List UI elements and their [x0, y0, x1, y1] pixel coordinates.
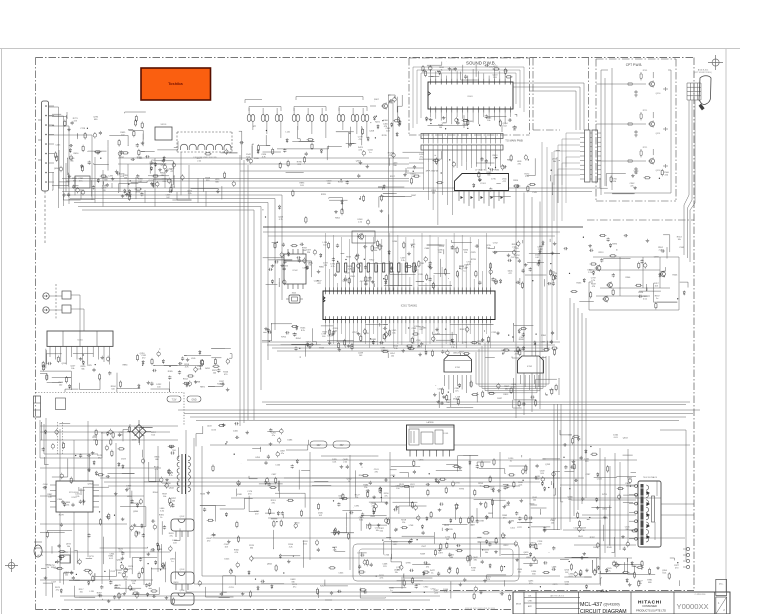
svg-text:IC201: IC201 [455, 367, 461, 369]
FBT area parts [560, 430, 639, 577]
svg-text:MODI: MODI [516, 604, 522, 606]
svg-text:CPT P.W.B.: CPT P.W.B. [626, 63, 643, 67]
shield box with transistor [352, 231, 375, 243]
flyback terminals [635, 485, 638, 488]
svg-text:47u: 47u [389, 155, 392, 157]
svg-text:CONSUMER: CONSUMER [642, 605, 657, 608]
svg-text:3.3k: 3.3k [116, 587, 120, 589]
bus bundle right turns [516, 188, 540, 418]
svg-text:7.5V: 7.5V [172, 400, 177, 402]
delay line coils [181, 144, 232, 150]
sheet box upper [716, 579, 727, 595]
svg-text:IC601: IC601 [467, 96, 473, 98]
svg-text:8.2k: 8.2k [246, 157, 250, 159]
tuner aux parts [370, 95, 402, 129]
svg-text:IC301: IC301 [480, 183, 486, 185]
vertical bus mid-right [542, 142, 557, 352]
svg-text:47u: 47u [420, 157, 423, 159]
regulator Q904 [171, 593, 194, 605]
svg-text:Toshiba: Toshiba [168, 81, 183, 86]
svg-text:15k: 15k [402, 522, 405, 524]
tuner long verticals [49, 107, 93, 208]
orange redaction box [141, 68, 211, 100]
svg-text:2.2k: 2.2k [444, 591, 448, 593]
below main IC parts [262, 323, 558, 358]
svg-text:47u: 47u [607, 570, 610, 572]
dotted section divider [36, 392, 185, 394]
svg-text:15k: 15k [395, 572, 398, 574]
mid band parts above main IC [263, 239, 560, 289]
svg-text:4.7k: 4.7k [380, 577, 384, 579]
left connector dashed drop [44, 191, 46, 245]
svg-text:15k: 15k [65, 575, 68, 577]
horizontal bus bundle upper [58, 188, 600, 420]
resistor row above main IC [337, 263, 415, 272]
vertical bus right-low [570, 298, 586, 522]
svg-text:1k: 1k [356, 497, 358, 499]
svg-text:IC502: IC502 [292, 270, 298, 272]
main PWB outline verticals beside sound PWB [532, 58, 534, 130]
left AV parts [40, 349, 232, 392]
svg-text:2.2k: 2.2k [188, 193, 192, 195]
CRT lead wires [684, 100, 695, 262]
svg-text:Q902: Q902 [180, 516, 185, 518]
svg-text:SF201: SF201 [161, 124, 168, 126]
svg-text:10k: 10k [67, 546, 70, 548]
main chassis frame dash-dot [36, 58, 695, 610]
svg-text:Q904: Q904 [180, 590, 185, 592]
svg-text:47u: 47u [384, 495, 387, 497]
IF transformer brackets [245, 97, 367, 112]
power supply parts [40, 422, 180, 600]
IF IC pins [459, 191, 504, 209]
svg-text:1k: 1k [431, 573, 433, 575]
delay line DL201 box [177, 132, 232, 152]
degauss dashed lines [58, 422, 63, 454]
svg-text:56k: 56k [626, 485, 629, 487]
CPT lower parts [600, 169, 662, 194]
svg-text:Q613: Q613 [342, 281, 348, 283]
svg-text:Q484: Q484 [509, 520, 515, 522]
svg-text:10k: 10k [71, 368, 74, 370]
svg-text:CHK.: CHK. [528, 601, 533, 603]
svg-text:Q616: Q616 [117, 560, 123, 562]
power secondary parts [196, 423, 310, 598]
audio bus rows [262, 402, 690, 530]
AC inlet [34, 396, 41, 417]
svg-text:15k: 15k [391, 355, 394, 357]
main IC IC501 [323, 291, 495, 320]
svg-text:56k: 56k [380, 530, 383, 532]
svg-text:12V: 12V [316, 445, 321, 447]
title block rows [524, 598, 580, 609]
CPT video amp Q352 [650, 122, 655, 127]
AV switch IC801 [47, 331, 113, 346]
IF filter parts [148, 141, 178, 188]
tuner section parts [52, 112, 146, 201]
IF amp cluster [378, 151, 560, 202]
svg-text:CIRCUIT DIAGRAM: CIRCUIT DIAGRAM [580, 609, 627, 614]
IF IC pin diodes [461, 196, 504, 199]
svg-text:TH901: TH901 [62, 552, 68, 554]
svg-text:2.2k: 2.2k [512, 247, 516, 249]
svg-text:56k: 56k [553, 161, 556, 163]
svg-text:10k: 10k [678, 239, 681, 241]
IF IC IC301 [455, 174, 509, 191]
long verticals right of Q201 [389, 95, 394, 300]
svg-text:1k: 1k [47, 567, 49, 569]
svg-text:DCL.: DCL. [719, 583, 724, 585]
svg-text:8.2k: 8.2k [359, 520, 363, 522]
svg-text:1u: 1u [510, 461, 512, 463]
center horizontal pair below dark line [263, 232, 560, 236]
svg-text:4.7k: 4.7k [279, 219, 283, 221]
switching transformer T901 [182, 454, 186, 494]
title block columns [524, 592, 715, 614]
svg-text:15k: 15k [364, 487, 367, 489]
AC input plug [34, 545, 42, 557]
svg-text:(CPT SOCKET P.W.B.): (CPT SOCKET P.W.B.) [694, 72, 712, 74]
svg-text:10k: 10k [634, 173, 637, 175]
svg-text:56k: 56k [374, 250, 377, 252]
svg-text:10k: 10k [132, 583, 135, 585]
crystal X501 [289, 295, 300, 303]
CPT video amp Q351 [650, 82, 655, 87]
svg-text:(QV43300): (QV43300) [604, 602, 620, 606]
CPT PWB outline [596, 59, 676, 201]
svg-text:Q903: Q903 [180, 569, 185, 571]
horizontal bus bundle low [178, 410, 700, 421]
svg-text:(1 VIDEO IN): (1 VIDEO IN) [475, 170, 487, 172]
svg-text:3.3k: 3.3k [486, 248, 490, 250]
svg-text:1u: 1u [463, 270, 465, 272]
svg-text:4.7k: 4.7k [591, 280, 595, 282]
main IC pins [326, 287, 491, 323]
svg-text:2.2k: 2.2k [538, 249, 542, 251]
svg-text:1k: 1k [582, 530, 584, 532]
IC401 internal blocks [409, 429, 419, 445]
power regulator IC901 [56, 481, 93, 512]
svg-text:10k: 10k [487, 120, 490, 122]
svg-text:APP.: APP. [528, 605, 533, 608]
svg-text:R701: R701 [643, 70, 648, 72]
svg-text:47u: 47u [98, 457, 101, 459]
svg-text:1u: 1u [390, 590, 392, 592]
svg-text:10k: 10k [533, 499, 536, 501]
svg-text:47u: 47u [293, 586, 296, 588]
tuner IF can [75, 176, 90, 188]
svg-text:2.2k: 2.2k [565, 584, 569, 586]
svg-text:PRODUCTS (S) PTE LTD: PRODUCTS (S) PTE LTD [636, 609, 666, 613]
svg-text:56k: 56k [513, 130, 516, 132]
CPT video amp Q353 [650, 159, 655, 164]
CPT inner routing [596, 68, 671, 195]
mains loop [40, 420, 102, 458]
deflection bottom parts [312, 455, 560, 598]
svg-text:2.2k: 2.2k [519, 484, 523, 486]
svg-text:10k: 10k [70, 161, 73, 163]
tuner drop wires to bus [59, 150, 206, 207]
svg-text:4.7k: 4.7k [120, 176, 124, 178]
svg-text:C-3P63 236: C-3P63 236 [695, 594, 707, 596]
sound IC pin wires [431, 69, 511, 124]
transistor Q201 [383, 104, 388, 109]
vertical bus left of center [240, 155, 248, 426]
svg-text:Q732: Q732 [462, 342, 468, 344]
svg-text:1u: 1u [171, 561, 173, 563]
svg-text:2.2k: 2.2k [119, 551, 123, 553]
svg-text:Q350: Q350 [656, 93, 661, 95]
sound IC pins [431, 79, 511, 113]
svg-text:2.2k: 2.2k [401, 260, 405, 262]
svg-text:2.2k: 2.2k [343, 461, 347, 463]
east-south parts [571, 558, 679, 587]
svg-text:AC IN: AC IN [37, 554, 43, 557]
horizontal bus bundle mid [262, 342, 560, 351]
svg-text:47u: 47u [56, 589, 59, 591]
svg-text:2.2k: 2.2k [358, 222, 362, 224]
IF transformer row [247, 114, 251, 121]
svg-text:2.2k: 2.2k [76, 496, 80, 498]
mid horizontal pair [62, 158, 409, 181]
svg-text:10k: 10k [163, 496, 166, 498]
EW correction parts [331, 462, 560, 562]
svg-text:1k: 1k [164, 486, 166, 488]
svg-text:Q351: Q351 [656, 133, 661, 135]
between band parts [262, 168, 406, 226]
svg-text:IC801: IC801 [77, 340, 83, 342]
svg-text:Q210: Q210 [140, 353, 146, 355]
relay box [56, 398, 66, 410]
svg-text:1u: 1u [369, 152, 371, 154]
CRT base tip [699, 104, 704, 110]
svg-text:15k: 15k [639, 583, 642, 585]
svg-text:JAN 7 95 CH 21:3: JAN 7 95 CH 21:3 [550, 594, 564, 597]
svg-text:2.2k: 2.2k [588, 272, 592, 274]
FBT right connector [686, 547, 689, 550]
svg-text:XXX XX XXX XXXX XXX XX X: XXX XX XXX XXXX XXX XX XXX [465, 608, 496, 610]
audio nested routing loops [476, 340, 549, 393]
svg-text:47u: 47u [630, 185, 633, 187]
CRT socket grid [687, 83, 701, 100]
svg-text:4.7k: 4.7k [220, 383, 224, 385]
svg-text:15k: 15k [551, 523, 554, 525]
svg-text:Q352: Q352 [656, 170, 661, 172]
svg-text:4.7k: 4.7k [467, 264, 471, 266]
svg-text:2.2k: 2.2k [502, 537, 506, 539]
svg-text:15k: 15k [79, 591, 82, 593]
svg-text:R721: R721 [643, 147, 648, 149]
svg-text:4.7k: 4.7k [411, 246, 415, 248]
AV area wires [49, 295, 84, 331]
svg-text:10k: 10k [376, 530, 379, 532]
svg-text:Q834: Q834 [267, 564, 273, 566]
svg-text:2.2k: 2.2k [659, 249, 663, 251]
svg-text:4.7k: 4.7k [262, 156, 266, 158]
bridge rectifier D901 [132, 425, 146, 439]
east deflection parts [564, 235, 688, 310]
sound PWB routing loops [413, 67, 524, 128]
pill label GND [187, 396, 201, 402]
svg-text:8.2k: 8.2k [301, 330, 305, 332]
svg-text:47u: 47u [359, 139, 362, 141]
regulator Q903 [171, 572, 194, 584]
svg-text:IC202: IC202 [527, 366, 533, 368]
title block frame [513, 592, 730, 614]
AV jacks J801 J802 [43, 293, 49, 299]
left power verticals [40, 418, 178, 596]
east deflection network [589, 257, 679, 310]
svg-text:TO MAIN PWB: TO MAIN PWB [505, 139, 523, 143]
svg-text:56k: 56k [81, 369, 84, 371]
svg-text:47u: 47u [529, 583, 532, 585]
svg-text:SOUND P.W.B.: SOUND P.W.B. [466, 61, 496, 66]
svg-text:10k: 10k [127, 488, 130, 490]
main PWB connector CN101 [421, 145, 503, 150]
main IC pin wires up [326, 233, 491, 287]
pill label 45V [333, 441, 350, 448]
svg-text:2.2k: 2.2k [289, 547, 293, 549]
svg-text:2.2k: 2.2k [197, 160, 201, 162]
svg-text:LA7830: LA7830 [427, 421, 435, 424]
svg-text:45V: 45V [339, 445, 344, 447]
IF filter SF201 [155, 127, 172, 140]
svg-text:8.2k: 8.2k [211, 538, 215, 540]
pill label 12V [310, 441, 327, 448]
svg-text:1u: 1u [656, 298, 658, 300]
svg-text:Y0000XX: Y0000XX [677, 602, 709, 611]
svg-text:1k: 1k [413, 330, 415, 332]
svg-text:3.3k: 3.3k [394, 348, 398, 350]
pill label 7.5V [167, 396, 181, 402]
svg-text:47u: 47u [170, 536, 173, 538]
sound tuning parts [239, 126, 397, 169]
svg-text:Q690: Q690 [54, 168, 60, 170]
svg-text:3.3k: 3.3k [66, 504, 70, 506]
svg-text:(IF P 2300 W): (IF P 2300 W) [426, 171, 439, 173]
sound IC IC601 [428, 82, 513, 109]
CPT connector fan left [554, 133, 580, 221]
FBT focus wires [655, 481, 694, 540]
svg-text:4.7k: 4.7k [358, 150, 362, 152]
svg-text:1k: 1k [440, 69, 442, 71]
svg-text:IC501 TDA8361: IC501 TDA8361 [401, 305, 418, 308]
sound PWB connector CN601 [421, 134, 503, 139]
degauss posistor [60, 555, 70, 563]
lower nested routing rectangles [40, 426, 690, 592]
svg-text:10k: 10k [411, 176, 414, 178]
svg-text:47u: 47u [455, 391, 458, 393]
power input parts [41, 546, 173, 605]
svg-text:47u: 47u [281, 453, 284, 455]
svg-text:IC401: IC401 [444, 433, 449, 435]
svg-text:15k: 15k [396, 488, 399, 490]
left edge connector CN802 [42, 101, 49, 191]
svg-text:8.2k: 8.2k [663, 573, 667, 575]
sound PWB upper parts [423, 61, 513, 80]
svg-text:T402 FLYBACK: T402 FLYBACK [643, 476, 658, 479]
svg-text:2.2k: 2.2k [525, 176, 529, 178]
audio section parts [435, 378, 559, 408]
svg-text:3.3k: 3.3k [160, 511, 164, 513]
svg-text:4.7k: 4.7k [169, 475, 173, 477]
svg-text:MCL-437: MCL-437 [580, 602, 602, 608]
svg-text:2.2k: 2.2k [400, 486, 404, 488]
svg-text:DR.: DR. [528, 596, 532, 598]
main PWB outline dash-dot right [587, 219, 694, 221]
svg-text:3.3k: 3.3k [333, 330, 337, 332]
svg-text:47u: 47u [272, 435, 275, 437]
CPT board connector CN903 [585, 130, 591, 182]
upper routing parts [118, 149, 238, 201]
svg-text:4.7k: 4.7k [185, 366, 189, 368]
svg-text:4.7k: 4.7k [553, 275, 557, 277]
svg-text:8.2k: 8.2k [151, 434, 155, 436]
svg-text:R711: R711 [643, 110, 647, 112]
audio amp IC201 [444, 356, 472, 373]
svg-text:AN5265: AN5265 [453, 352, 461, 355]
south strip parts [325, 560, 610, 601]
pincushion loop box [353, 544, 519, 581]
CRT neck [699, 76, 711, 105]
svg-text:GND: GND [191, 400, 196, 402]
flyback transformer T402 [638, 481, 661, 547]
svg-text:56k: 56k [490, 489, 493, 491]
svg-text:1k: 1k [348, 481, 350, 483]
sound connector fanout wires [405, 160, 500, 225]
svg-text:X501: X501 [292, 293, 296, 295]
dark PWB top line [263, 226, 583, 228]
svg-text:2.2k: 2.2k [348, 268, 352, 270]
sheet box lower [716, 597, 727, 614]
svg-text:4.7k: 4.7k [331, 266, 335, 268]
svg-text:10k: 10k [464, 252, 467, 254]
sound PWB lower parts [427, 114, 517, 132]
svg-text:15k: 15k [392, 332, 395, 334]
svg-text:56k: 56k [485, 552, 488, 554]
FBT feed verticals [560, 448, 636, 560]
svg-text:4.7k: 4.7k [234, 552, 238, 554]
svg-text:1k: 1k [160, 517, 162, 519]
svg-text:56k: 56k [487, 175, 490, 177]
power bus rows [60, 478, 560, 600]
EEPROM IC502 [284, 254, 306, 284]
svg-text:Q763: Q763 [545, 464, 551, 466]
regulator Q902 [171, 519, 194, 531]
svg-text:3.3k: 3.3k [612, 181, 616, 183]
svg-text:1u: 1u [479, 485, 481, 487]
svg-text:47u: 47u [503, 518, 506, 520]
main IC pin wires down [326, 323, 491, 348]
svg-text:47u: 47u [79, 181, 82, 183]
sound-to-CPT wires [513, 83, 584, 130]
IC202 [518, 356, 544, 373]
sound PWB outline [409, 58, 530, 135]
vertical output IC401 [407, 425, 455, 450]
registration cross top-right [708, 55, 723, 70]
registration cross bottom-left [5, 559, 18, 572]
